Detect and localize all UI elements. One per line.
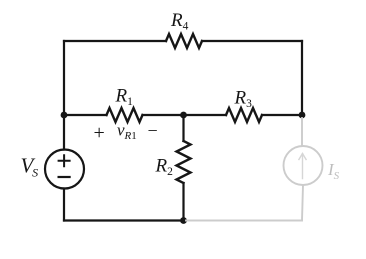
wire R2 bottom lead: [182, 183, 184, 221]
wire top from left corner to R4: [64, 40, 166, 42]
current source IS arrow: [299, 154, 306, 179]
wire right vertical top: [301, 41, 303, 115]
resistor R2: [177, 141, 191, 183]
node dot center middle: [180, 112, 187, 119]
wire left vertical upper: [63, 41, 65, 150]
current source IS circle: [284, 146, 323, 185]
node dot right middle: [299, 112, 306, 119]
wire R2 top lead: [182, 115, 184, 141]
node dot bottom: [180, 217, 187, 224]
minus sign inside VS: [59, 176, 70, 178]
resistor R4: [166, 34, 202, 48]
voltage source VS circle: [45, 150, 84, 189]
wire top from R4 to right corner: [202, 40, 302, 42]
wire middle from R3 to right node: [262, 114, 302, 116]
resistor R3: [226, 108, 262, 122]
svg-text:IS: IS: [327, 160, 340, 182]
svg-text:R2: R2: [155, 156, 174, 178]
wire gray right vertical above IS: [301, 118, 303, 146]
wire gray right vertical below IS: [302, 185, 303, 221]
svg-text:+: +: [94, 122, 105, 144]
svg-text:−: −: [148, 121, 158, 141]
resistor R1: [107, 108, 143, 122]
wire left vertical lower: [63, 189, 65, 221]
svg-text:vR1: vR1: [117, 121, 137, 143]
svg-text:R4: R4: [170, 10, 189, 32]
wire bottom black segment: [64, 219, 184, 221]
wire middle from R1 to center node: [143, 114, 227, 116]
plus sign inside VS: [59, 155, 70, 166]
svg-text:R3: R3: [234, 88, 253, 110]
node dot left middle: [61, 112, 68, 119]
svg-text:R1: R1: [115, 86, 134, 108]
wire middle from left node to R1: [64, 114, 107, 116]
svg-text:VS: VS: [21, 153, 39, 179]
wire gray bottom segment: [186, 220, 302, 222]
